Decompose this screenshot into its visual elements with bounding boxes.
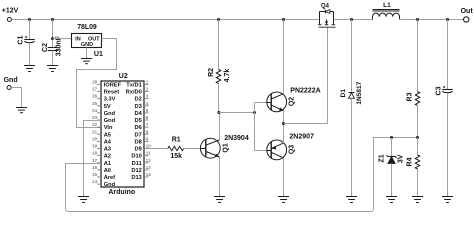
svg-text:10: 10 — [146, 144, 152, 149]
svg-text:D4: D4 — [135, 111, 143, 117]
svg-text:7: 7 — [146, 122, 149, 127]
svg-text:Q1: Q1 — [222, 143, 229, 152]
transistor Q2 PN2222A — [267, 87, 321, 112]
wire Q2 emitter down — [283, 111, 285, 124]
svg-text:2: 2 — [146, 87, 149, 92]
svg-text:1N5817: 1N5817 — [356, 81, 363, 104]
wire Q1 emitter down — [219, 157, 221, 197]
transistor Q4 P-MOSFET — [318, 3, 336, 27]
wire Q2 collector to rail — [283, 20, 285, 94]
pin Tx/D1 (right row 1) — [126, 80, 149, 89]
svg-text:14: 14 — [146, 172, 152, 177]
ground left Gnd terminal — [16, 107, 27, 109]
wire C2 to U1 IN — [53, 38, 72, 40]
wire emitter node to Q4 gate — [284, 28, 328, 124]
resistor R3 — [407, 20, 420, 138]
svg-text:C3: C3 — [436, 86, 443, 95]
zener diode Z1 3V — [378, 138, 404, 197]
svg-text:14: 14 — [92, 179, 98, 184]
pin D12 (right row 13) — [131, 165, 151, 174]
wire U1 OUT to Arduino Vin — [77, 39, 117, 128]
pin D8 (right row 9) — [135, 136, 149, 145]
wire Q3 emitter up — [283, 124, 285, 144]
terminal Out — [461, 8, 474, 22]
svg-text:17: 17 — [92, 158, 98, 163]
svg-text:15k: 15k — [170, 153, 182, 160]
svg-text:1: 1 — [146, 80, 149, 85]
pin Gnd (left row 15) — [92, 179, 115, 188]
wire Q3 collector down — [283, 158, 285, 197]
pin Gnd (left row 5) — [92, 108, 115, 117]
pin 3.3V (left row 3) — [92, 94, 115, 103]
Arduino module U2 body — [101, 73, 144, 196]
svg-text:D11: D11 — [132, 161, 142, 167]
svg-text:Arduino: Arduino — [108, 189, 135, 196]
terminal +12V — [2, 7, 19, 21]
svg-text:4: 4 — [146, 101, 149, 106]
node rail-C3 junction — [446, 18, 449, 21]
svg-text:D7: D7 — [135, 132, 142, 138]
svg-text:9: 9 — [146, 136, 149, 141]
wire to Q2 base — [255, 102, 267, 104]
ground Z1 — [386, 196, 397, 198]
wire Q1 collector to Q2/Q3 base rail — [219, 112, 255, 114]
node C2-regulator IN junction — [51, 37, 54, 40]
svg-text:Vin: Vin — [104, 125, 113, 131]
svg-text:GND: GND — [81, 42, 93, 48]
pin D2 (right row 3) — [135, 94, 149, 103]
inductor L1 — [373, 2, 400, 19]
svg-text:Reset: Reset — [104, 90, 120, 96]
pin A4 (left row 9) — [92, 136, 112, 145]
capacitor C2 — [42, 20, 63, 66]
svg-text:11: 11 — [146, 151, 151, 156]
svg-text:Q4: Q4 — [321, 3, 330, 9]
pin D7 (right row 8) — [135, 129, 149, 138]
wire base rail vertical — [254, 103, 256, 151]
svg-text:4.7k: 4.7k — [224, 69, 231, 83]
svg-text:2N3904: 2N3904 — [224, 135, 249, 142]
svg-text:D8: D8 — [135, 139, 142, 145]
wire Arduino A1 feedback to divider node — [66, 138, 418, 212]
node feedback divider junction R3/R4 — [416, 136, 419, 139]
svg-text:13: 13 — [146, 165, 152, 170]
pin Aref (left row 14) — [92, 172, 115, 181]
wire +12V top rail left segment — [12, 19, 320, 21]
svg-text:R3: R3 — [407, 92, 414, 101]
node Q2/Q3 emitter junction — [282, 122, 285, 125]
svg-text:Rx/D0: Rx/D0 — [126, 90, 142, 96]
svg-text:A3: A3 — [104, 147, 111, 153]
svg-text:R1: R1 — [172, 136, 181, 143]
svg-text:U2: U2 — [119, 73, 128, 80]
svg-text:Gnd: Gnd — [4, 77, 18, 84]
node base rail junction — [253, 111, 256, 114]
wire rail from L1 to Out — [400, 19, 465, 21]
pin Gnd (left row 6) — [92, 115, 115, 124]
svg-text:D1: D1 — [340, 89, 347, 98]
svg-text:A5: A5 — [104, 132, 111, 138]
svg-text:24: 24 — [92, 108, 98, 113]
wire to Q3 base — [255, 150, 267, 152]
svg-text:D13: D13 — [131, 175, 141, 181]
svg-text:R2: R2 — [208, 68, 215, 77]
svg-text:78L09: 78L09 — [77, 24, 97, 31]
svg-text:U1: U1 — [94, 51, 103, 58]
svg-text:18: 18 — [92, 151, 98, 156]
pin Reset (left row 2) — [92, 87, 119, 96]
voltage regulator U1 78L09 — [72, 24, 103, 58]
pin Vin (left row 7) — [92, 122, 113, 131]
node rail-C1 junction — [28, 18, 31, 21]
pin A3 (left row 10) — [92, 144, 111, 153]
transistor Q1 2N3904 — [200, 135, 248, 158]
svg-text:Gnd: Gnd — [104, 118, 116, 124]
resistor R4 — [407, 138, 420, 197]
svg-text:2N2907: 2N2907 — [289, 133, 314, 140]
svg-text:C1: C1 — [18, 36, 25, 45]
ground R4 — [412, 196, 423, 198]
svg-text:Aref: Aref — [104, 175, 115, 181]
svg-text:IOREF: IOREF — [104, 83, 122, 89]
ground D1 anode — [346, 196, 357, 198]
ground Q3 collector — [278, 196, 289, 198]
capacitor C1 — [18, 20, 35, 66]
diode D1 1N5817 — [340, 20, 363, 197]
pin D11 (right row 12) — [132, 158, 152, 167]
transistor Q3 2N2907 — [267, 133, 314, 159]
wire Arduino Gnd pin to ground — [84, 121, 102, 197]
svg-text:A2: A2 — [104, 154, 111, 160]
node rail-C2 junction — [51, 18, 54, 21]
pin Rx/D0 (right row 2) — [126, 87, 149, 96]
svg-text:D3: D3 — [135, 104, 142, 110]
node switch node junction — [350, 18, 353, 21]
svg-text:12: 12 — [146, 158, 152, 163]
ground Arduino — [78, 196, 89, 198]
svg-text:26: 26 — [92, 94, 98, 99]
node R2-Q1 collector junction — [217, 111, 220, 114]
svg-text:D2: D2 — [135, 97, 142, 103]
wire U1 GND lead — [86, 48, 88, 59]
pin IOREF (left row 1) — [92, 80, 121, 89]
pin D10 (right row 11) — [131, 151, 151, 160]
svg-text:Q3: Q3 — [289, 145, 296, 154]
ground U1 — [81, 58, 92, 60]
svg-text:25: 25 — [92, 101, 98, 106]
svg-text:Z1: Z1 — [378, 154, 385, 162]
svg-text:21: 21 — [92, 129, 98, 134]
pin 5V (left row 4) — [92, 101, 111, 110]
svg-text:5V: 5V — [104, 104, 111, 110]
svg-text:+12V: +12V — [2, 7, 19, 14]
svg-text:3: 3 — [146, 94, 149, 99]
wire R1 to Q1 base — [184, 148, 201, 150]
svg-text:16: 16 — [92, 165, 98, 170]
wire Gnd terminal to ground — [11, 88, 21, 108]
svg-text:27: 27 — [92, 87, 98, 92]
svg-text:C2: C2 — [42, 43, 49, 52]
wire Arduino D9 to R1 — [149, 148, 168, 150]
pin D4 (right row 5) — [135, 108, 149, 117]
svg-text:Gnd: Gnd — [104, 111, 116, 117]
svg-text:Tx/D1: Tx/D1 — [126, 83, 142, 89]
svg-text:Q2: Q2 — [289, 97, 296, 106]
node feedback Z1 junction — [390, 136, 393, 139]
svg-text:D10: D10 — [131, 154, 141, 160]
ground C2 — [47, 65, 58, 67]
wire rail right segment to L1 — [334, 19, 373, 21]
pin A1 (left row 12) — [92, 158, 111, 167]
svg-text:3V: 3V — [397, 154, 404, 163]
svg-text:A1: A1 — [104, 161, 111, 167]
pin D13 (right row 14) — [131, 172, 151, 181]
svg-text:22: 22 — [92, 122, 98, 127]
pin D6 (right row 7) — [135, 122, 149, 131]
ground C1 — [24, 65, 35, 67]
node rail-R2 junction — [217, 18, 220, 21]
svg-text:6: 6 — [146, 115, 149, 120]
pin D9 (right row 10) — [135, 144, 152, 153]
svg-text:D5: D5 — [135, 118, 142, 124]
svg-text:8: 8 — [146, 129, 149, 134]
pin A5 (left row 8) — [92, 129, 111, 138]
resistor R2 4.7k — [208, 20, 231, 113]
svg-text:23: 23 — [92, 115, 98, 120]
svg-text:L1: L1 — [383, 2, 391, 9]
node rail-Q2 collector junction — [282, 18, 285, 21]
terminal Gnd (left) — [4, 77, 18, 90]
svg-text:19: 19 — [92, 144, 98, 149]
ground Q1 emitter — [214, 196, 225, 198]
svg-text:R4: R4 — [407, 157, 414, 166]
svg-text:D9: D9 — [135, 147, 142, 153]
pin A0 (left row 13) — [92, 165, 111, 174]
svg-text:PN2222A: PN2222A — [290, 87, 320, 94]
svg-text:Out: Out — [461, 8, 474, 15]
svg-text:A0: A0 — [104, 168, 111, 174]
pin D3 (right row 4) — [135, 101, 149, 110]
node rail-R3 junction — [416, 18, 419, 21]
pin D5 (right row 6) — [135, 115, 149, 124]
svg-text:15: 15 — [92, 172, 98, 177]
svg-text:D6: D6 — [135, 125, 142, 131]
svg-text:3.3V: 3.3V — [104, 97, 116, 103]
ground C3 — [442, 196, 453, 198]
wire Q1 collector up — [219, 113, 221, 140]
svg-text:Gnd: Gnd — [104, 182, 116, 188]
svg-text:28: 28 — [92, 80, 98, 85]
capacitor C3 — [436, 20, 453, 197]
svg-text:A4: A4 — [104, 139, 112, 145]
svg-text:20: 20 — [92, 136, 98, 141]
svg-text:5: 5 — [146, 108, 149, 113]
svg-text:D12: D12 — [131, 168, 141, 174]
pin A2 (left row 11) — [92, 151, 111, 160]
resistor R1 15k — [168, 136, 184, 160]
